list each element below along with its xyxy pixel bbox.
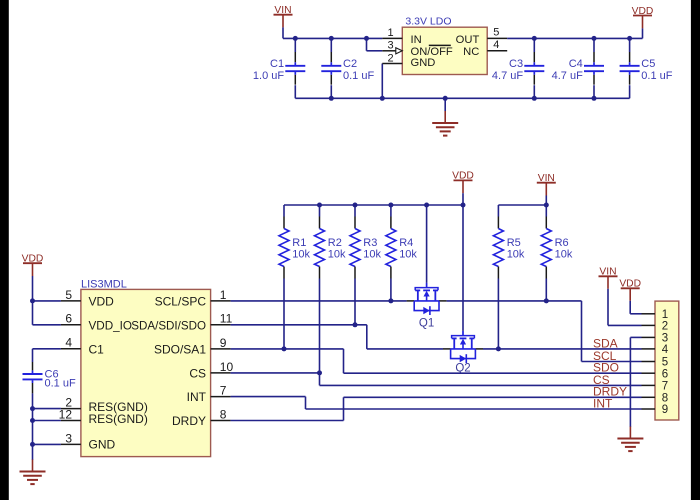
resistor R3 10k <box>350 205 382 325</box>
svg-text:5: 5 <box>493 27 499 39</box>
wire C2 leads <box>330 38 332 52</box>
wire pin 12 RES(GND) <box>33 420 61 422</box>
svg-text:SDO/SA1: SDO/SA1 <box>154 342 206 356</box>
node C3 bottom junction <box>532 96 537 101</box>
svg-text:R3: R3 <box>363 237 377 249</box>
svg-text:3.3V LDO: 3.3V LDO <box>405 15 451 27</box>
svg-text:R4: R4 <box>399 237 413 249</box>
svg-text:4: 4 <box>493 39 499 51</box>
pin 1 right lead <box>211 300 231 302</box>
pin 3 connector lead <box>642 336 656 338</box>
pin 9 right lead <box>211 348 231 350</box>
op-amp U1 3.3V LDO regulator box <box>402 15 487 74</box>
svg-text:11: 11 <box>220 312 233 326</box>
node pin 2 junction <box>30 406 35 411</box>
svg-text:4.7 uF: 4.7 uF <box>552 70 583 82</box>
svg-text:NC: NC <box>463 46 479 58</box>
pin 7 connector lead <box>642 384 656 386</box>
node ground takeoff junction <box>443 96 448 101</box>
svg-text:GND: GND <box>411 57 436 69</box>
svg-text:R2: R2 <box>328 237 342 249</box>
resistor R6 10k <box>541 205 573 301</box>
svg-text:Q1: Q1 <box>419 318 434 330</box>
supply VDD right <box>619 279 641 314</box>
pin 12 left lead <box>61 420 81 422</box>
pin 2 left lead <box>61 408 81 410</box>
svg-text:R5: R5 <box>507 237 521 249</box>
svg-text:7: 7 <box>662 381 668 393</box>
node pin3 takeoff junction <box>364 36 369 41</box>
wire CS net: IC pin 10 jog down to connector pin 7 <box>231 372 320 374</box>
node C3 top junction <box>532 36 537 41</box>
svg-text:8: 8 <box>220 407 227 421</box>
wire pin 3 GND <box>33 443 61 445</box>
node pull-up bus junction x=426.6 <box>424 203 429 208</box>
pin 9 connector lead <box>642 408 656 410</box>
ground below LDO <box>432 98 458 135</box>
wire pin 4 C1 to C6 <box>33 348 61 350</box>
svg-text:2: 2 <box>662 321 668 333</box>
wire bottom ground bus top section <box>294 38 296 52</box>
svg-text:4: 4 <box>65 336 72 350</box>
node C4 top junction <box>592 36 597 41</box>
svg-text:12: 12 <box>59 407 73 421</box>
svg-text:10k: 10k <box>399 249 417 261</box>
pin 1 connector lead <box>642 313 656 315</box>
svg-text:VDD: VDD <box>89 295 115 309</box>
node pin 12 junction <box>30 418 35 423</box>
svg-text:10k: 10k <box>292 249 310 261</box>
node C4 bottom junction <box>592 96 597 101</box>
svg-text:SDA/SDI/SDO: SDA/SDI/SDO <box>131 319 206 332</box>
pin 2 GND <box>382 63 402 65</box>
svg-text:SCL/SPC: SCL/SPC <box>155 295 207 309</box>
wire SCL net: IC pin 1 to Q1 <box>231 300 407 302</box>
svg-text:INT: INT <box>187 390 207 404</box>
svg-text:10k: 10k <box>555 249 573 261</box>
supply VIN top <box>274 5 293 38</box>
supply VIN right <box>599 267 618 326</box>
node pull-up bus junction x=463.0 <box>461 203 466 208</box>
svg-text:VDD_IO: VDD_IO <box>89 319 133 332</box>
svg-text:3: 3 <box>662 333 668 345</box>
svg-text:5: 5 <box>662 357 668 369</box>
op-amp U2 LIS3MDL magnetometer IC box <box>81 278 211 456</box>
svg-text:DRDY: DRDY <box>172 414 206 428</box>
svg-text:C1: C1 <box>270 58 284 70</box>
svg-text:C5: C5 <box>641 58 655 70</box>
wire top right bus LDO OUT to VDD <box>507 37 642 39</box>
transistor Q2 N-channel MOSFET <box>443 331 483 375</box>
pin 3 ON/OFF with input arrow <box>382 50 396 52</box>
pin 10 right lead <box>211 372 231 374</box>
wire C6 bottom to ground net <box>32 393 34 459</box>
wire LDO ON/OFF pin 3 connection <box>366 38 368 50</box>
ground below connector <box>617 426 643 451</box>
ground below C6 <box>20 459 46 484</box>
pin 5 left lead <box>61 300 81 302</box>
pin 4 connector lead <box>642 348 656 350</box>
svg-text:10k: 10k <box>507 249 525 261</box>
node R1 bottom junction <box>282 346 287 351</box>
resistor R5 10k <box>493 205 525 349</box>
wire top bus VIN to LDO pin 1 <box>283 37 382 39</box>
svg-text:7: 7 <box>220 384 227 398</box>
node R4 bottom junction <box>388 298 393 303</box>
node R5 bottom junction <box>496 346 501 351</box>
node VDD pin5 junction <box>30 298 35 303</box>
svg-text:9: 9 <box>662 404 668 416</box>
svg-text:0.1 uF: 0.1 uF <box>343 70 374 82</box>
wire SDA net: IC pin 11 jog down to Q2 <box>231 324 367 326</box>
supply VDD top right <box>632 6 654 39</box>
node pull-up bus junction x=319.5 <box>317 203 322 208</box>
wire VDD down to pin 6 <box>32 301 34 325</box>
svg-text:OUT: OUT <box>456 34 480 46</box>
pin 6 left lead <box>61 324 81 326</box>
connector J1 9-pin header box <box>655 301 679 420</box>
svg-text:3: 3 <box>387 40 393 52</box>
pin 5 connector lead <box>642 361 656 363</box>
capacitor C2 0.1 uF <box>321 52 374 85</box>
pin 8 right lead <box>211 420 231 422</box>
node C1 top junction <box>293 36 298 41</box>
svg-text:10k: 10k <box>363 249 381 261</box>
capacitor C1 1.0 uF <box>253 52 305 85</box>
svg-text:R1: R1 <box>292 237 306 249</box>
svg-text:0.1 uF: 0.1 uF <box>45 378 76 390</box>
supply VDD pull-ups <box>452 171 474 205</box>
svg-text:1: 1 <box>662 309 668 321</box>
svg-text:8: 8 <box>662 393 668 405</box>
left black border bar <box>0 0 9 500</box>
svg-text:3: 3 <box>65 431 72 445</box>
transistor Q1 N-channel MOSFET <box>407 283 447 330</box>
svg-text:6: 6 <box>662 368 668 380</box>
wire C5 leads <box>629 38 631 52</box>
node C5 top junction <box>627 36 632 41</box>
svg-text:9: 9 <box>220 336 227 350</box>
pin 4 left lead <box>61 348 81 350</box>
svg-text:C2: C2 <box>343 58 357 70</box>
wire pin 2 RES(GND) <box>33 408 61 410</box>
wire LDO GND pin 2 to ground bus <box>381 64 383 99</box>
svg-text:C1: C1 <box>89 342 105 356</box>
node R3 bottom junction <box>353 322 358 327</box>
capacitor C5 0.1 uF <box>620 52 673 85</box>
wire INT net: IC pin 7 jog down to connector pin 9 <box>231 396 306 398</box>
svg-text:CS: CS <box>189 366 206 380</box>
svg-text:LIS3MDL: LIS3MDL <box>81 278 127 290</box>
svg-text:1: 1 <box>387 27 393 39</box>
wire VDD to pin 5 <box>33 300 61 302</box>
node pin 3 junction <box>30 442 35 447</box>
pin 1 IN <box>382 37 402 39</box>
svg-text:6: 6 <box>65 312 72 326</box>
supply VIN pull-ups <box>537 173 556 205</box>
svg-text:0.1 uF: 0.1 uF <box>641 70 672 82</box>
wire SDA net: Q2 to connector pin 4 <box>483 348 642 350</box>
node pull-up bus junction x=390.9 <box>388 203 393 208</box>
wire Q2 gate to VDD bus <box>462 205 464 331</box>
svg-text:1: 1 <box>220 288 227 302</box>
pin 7 right lead <box>211 396 231 398</box>
node VIN bus junction <box>544 203 549 208</box>
capacitor C6 0.1 uF <box>23 362 76 393</box>
pin 4 NC <box>487 50 507 52</box>
right black border bar <box>691 0 700 500</box>
svg-text:4: 4 <box>662 344 669 356</box>
svg-text:IN: IN <box>411 34 422 46</box>
svg-text:INT: INT <box>593 396 613 410</box>
svg-text:R6: R6 <box>555 237 569 249</box>
svg-text:GND: GND <box>89 438 116 452</box>
wire C3 leads <box>533 38 535 52</box>
resistor R1 10k <box>279 205 311 349</box>
wire Q1 gate to VDD bus <box>426 205 428 283</box>
pin 11 right lead <box>211 324 231 326</box>
wire VIN pull-up bus <box>498 204 546 206</box>
node C2 bottom junction <box>329 96 334 101</box>
node pull-up bus junction x=355.0 <box>353 203 358 208</box>
wire C4 leads <box>593 38 595 52</box>
capacitor C4 4.7 uF <box>552 52 604 85</box>
svg-text:4.7 uF: 4.7 uF <box>492 70 523 82</box>
pin 5 OUT <box>487 37 507 39</box>
supply VDD left <box>22 254 44 301</box>
wire VDD to connector pin 1 <box>630 313 641 315</box>
pin 2 connector lead <box>642 324 656 326</box>
svg-text:2: 2 <box>387 52 393 64</box>
pin 3 left lead <box>61 443 81 445</box>
svg-text:C4: C4 <box>569 58 583 70</box>
wire VIN to connector pin 2 <box>608 324 642 326</box>
wire SCL net: Q1 to jog down to connector pin 5 <box>447 300 582 302</box>
wire SDO net: IC pin 9 jog down to connector pin 6 <box>231 348 344 350</box>
wire VDD pull-up bus <box>284 204 463 206</box>
wire DRDY net: IC pin 8 jog up to connector pin 8 <box>231 420 344 422</box>
wire connector pin 3 to ground <box>630 336 641 338</box>
resistor R4 10k <box>386 205 418 301</box>
node R2 bottom junction <box>317 370 322 375</box>
node C2 top junction <box>329 36 334 41</box>
svg-text:10k: 10k <box>328 249 346 261</box>
svg-text:C3: C3 <box>509 58 523 70</box>
node R6 bottom junction <box>544 298 549 303</box>
svg-text:5: 5 <box>65 288 72 302</box>
svg-text:10: 10 <box>220 360 234 374</box>
resistor R2 10k <box>315 205 347 373</box>
svg-text:1.0 uF: 1.0 uF <box>253 70 284 82</box>
pin 8 connector lead <box>642 396 656 398</box>
capacitor C3 4.7 uF <box>492 52 544 85</box>
svg-text:RES(GND): RES(GND) <box>89 412 148 426</box>
pin 6 connector lead <box>642 372 656 374</box>
node LDO GND junction <box>380 96 385 101</box>
